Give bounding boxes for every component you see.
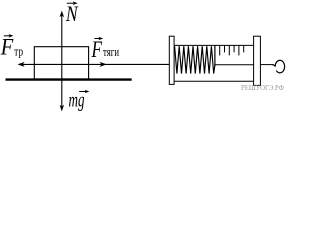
svg-text:тр: тр [14, 45, 23, 59]
svg-text:F: F [91, 37, 103, 62]
svg-text:F: F [0, 35, 14, 60]
svg-text:тяги: тяги [103, 45, 119, 59]
svg-text:РЕШУОГЭ.РФ: РЕШУОГЭ.РФ [241, 83, 284, 92]
svg-text:N: N [65, 2, 79, 26]
svg-text:mg: mg [69, 87, 85, 111]
